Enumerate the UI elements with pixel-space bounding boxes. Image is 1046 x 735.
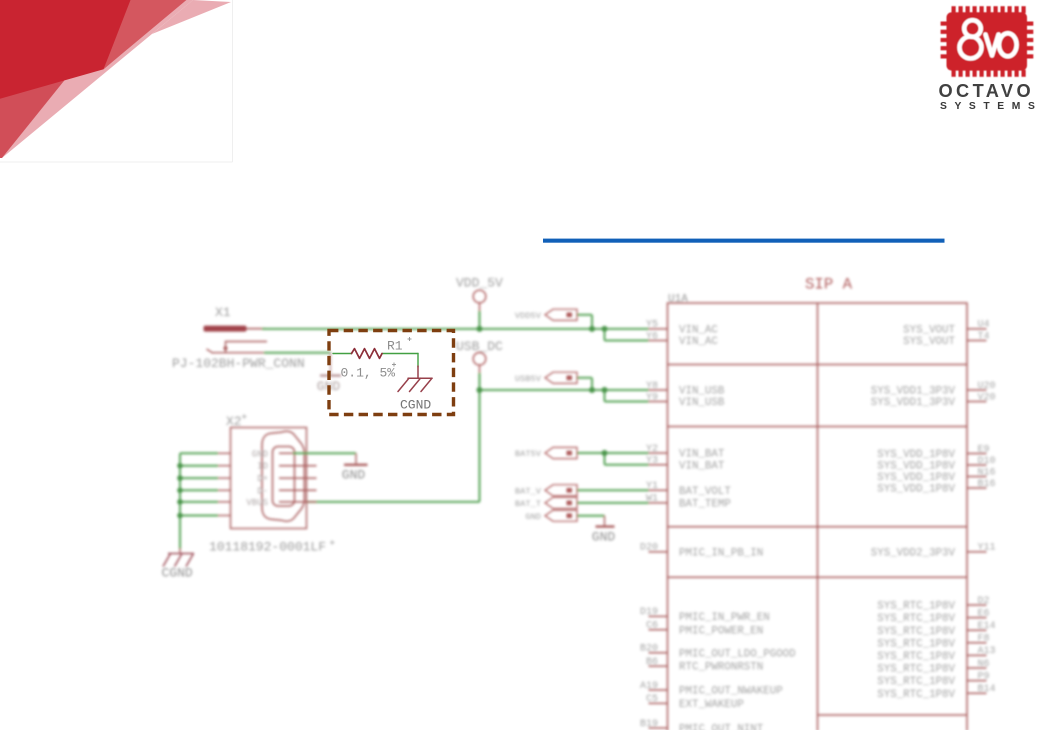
svg-text:10118192-0001LF: 10118192-0001LF (209, 539, 326, 554)
svg-text:B6: B6 (646, 657, 658, 668)
svg-text:U4: U4 (978, 320, 990, 331)
svg-text:V20: V20 (978, 392, 996, 403)
svg-text:P9: P9 (978, 671, 990, 682)
svg-text:VIN_BAT: VIN_BAT (679, 460, 725, 472)
svg-text:B19: B19 (640, 719, 658, 730)
svg-text:SYS_RTC_1P8V: SYS_RTC_1P8V (877, 676, 955, 688)
svg-text:D20: D20 (640, 543, 658, 554)
svg-text:GND: GND (252, 449, 268, 459)
svg-text:SYS_RTC_1P8V: SYS_RTC_1P8V (877, 613, 955, 625)
svg-text:PMIC_OUT_NWAKEUP: PMIC_OUT_NWAKEUP (679, 686, 783, 698)
svg-text:OCTAVO: OCTAVO (939, 81, 1035, 101)
svg-text:Y8: Y8 (646, 381, 658, 392)
svg-text:D2: D2 (978, 596, 990, 607)
svg-text:A13: A13 (978, 646, 996, 657)
svg-text:D19: D19 (640, 607, 658, 618)
svg-text:SIP A: SIP A (805, 276, 853, 294)
svg-text:VIN_AC: VIN_AC (679, 336, 718, 348)
svg-text:PMIC_IN_PB_IN: PMIC_IN_PB_IN (679, 548, 763, 560)
svg-text:BAT_TEMP: BAT_TEMP (679, 499, 731, 511)
svg-text:0.1, 5%: 0.1, 5% (341, 366, 396, 381)
svg-text:B14: B14 (978, 684, 996, 695)
svg-text:B16: B16 (978, 479, 996, 490)
svg-text:SYS_RTC_1P8V: SYS_RTC_1P8V (877, 626, 955, 638)
svg-text:GND: GND (525, 512, 541, 522)
svg-text:BAT_VOLT: BAT_VOLT (679, 486, 731, 498)
svg-text:VDD_5V: VDD_5V (456, 275, 503, 290)
svg-text:R1: R1 (387, 339, 403, 354)
svg-text:C6: C6 (646, 621, 658, 632)
svg-text:SYS_RTC_1P8V: SYS_RTC_1P8V (877, 601, 955, 613)
svg-text:Y11: Y11 (978, 543, 996, 554)
svg-text:N16: N16 (978, 467, 996, 478)
svg-text:BAT_V: BAT_V (515, 487, 542, 497)
svg-text:BAT5V: BAT5V (515, 449, 542, 459)
svg-text:VIN_USB: VIN_USB (679, 397, 725, 409)
svg-text:SYS_VDD2_3P3V: SYS_VDD2_3P3V (871, 548, 956, 560)
svg-text:D10: D10 (978, 456, 996, 467)
svg-text:B20: B20 (640, 644, 658, 655)
svg-text:VIN_BAT: VIN_BAT (679, 449, 725, 461)
svg-text:PMIC_OUT_NINT: PMIC_OUT_NINT (679, 724, 764, 730)
svg-text:A19: A19 (640, 681, 658, 692)
svg-text:Y2: Y2 (646, 444, 658, 455)
svg-text:USB_DC: USB_DC (456, 339, 503, 354)
svg-text:RTC_PWRONRSTN: RTC_PWRONRSTN (679, 662, 763, 674)
svg-text:SYS_RTC_1P8V: SYS_RTC_1P8V (877, 651, 955, 663)
svg-text:D-: D- (257, 486, 268, 496)
svg-text:SYS_VDD_1P8V: SYS_VDD_1P8V (877, 461, 955, 473)
svg-text:PMIC_OUT_LDO_PGOOD: PMIC_OUT_LDO_PGOOD (679, 648, 796, 660)
svg-text:SYS_RTC_1P8V: SYS_RTC_1P8V (877, 689, 955, 701)
svg-text:SYS_VDD1_3P3V: SYS_VDD1_3P3V (871, 397, 956, 409)
svg-text:SYSTEMS: SYSTEMS (940, 101, 1042, 112)
svg-text:VIN_USB: VIN_USB (679, 386, 725, 398)
svg-text:CGND: CGND (162, 565, 193, 580)
svg-text:U20: U20 (978, 381, 996, 392)
svg-text:GND: GND (342, 468, 366, 483)
svg-text:PJ-102BH-PWR_CONN: PJ-102BH-PWR_CONN (172, 356, 305, 371)
svg-text:GND: GND (592, 530, 616, 545)
svg-text:Y1: Y1 (646, 481, 658, 492)
svg-text:X2: X2 (226, 414, 242, 429)
svg-text:EXT_WAKEUP: EXT_WAKEUP (679, 699, 744, 711)
svg-text:VDD5V: VDD5V (515, 311, 542, 321)
svg-text:ID: ID (257, 462, 268, 472)
svg-text:Y3: Y3 (646, 456, 658, 467)
svg-text:SYS_RTC_1P8V: SYS_RTC_1P8V (877, 638, 955, 650)
svg-text:C5: C5 (646, 694, 658, 705)
svg-text:Y9: Y9 (646, 392, 658, 403)
svg-text:VBUS: VBUS (246, 498, 268, 508)
svg-text:SYS_VDD1_3P3V: SYS_VDD1_3P3V (871, 386, 956, 398)
svg-text:E9: E9 (978, 444, 990, 455)
svg-text:SYS_VOUT: SYS_VOUT (903, 336, 955, 348)
svg-text:SYS_VDD_1P8V: SYS_VDD_1P8V (877, 449, 955, 461)
svg-text:Y6: Y6 (646, 331, 658, 342)
svg-text:Y5: Y5 (646, 320, 658, 331)
svg-text:T4: T4 (978, 331, 990, 342)
svg-text:PMIC_POWER_EN: PMIC_POWER_EN (679, 625, 763, 637)
svg-text:D+: D+ (257, 474, 268, 484)
svg-text:SYS_VDD_1P8V: SYS_VDD_1P8V (877, 472, 955, 484)
svg-text:W1: W1 (646, 494, 658, 505)
svg-text:F8: F8 (978, 634, 990, 645)
svg-text:VIN_AC: VIN_AC (679, 325, 718, 337)
svg-text:SYS_RTC_1P8V: SYS_RTC_1P8V (877, 664, 955, 676)
svg-text:CGND: CGND (400, 397, 431, 412)
svg-text:BAT_T: BAT_T (515, 499, 541, 509)
svg-text:SYS_VDD_1P8V: SYS_VDD_1P8V (877, 484, 955, 496)
svg-text:E14: E14 (978, 621, 996, 632)
svg-text:X1: X1 (215, 305, 231, 320)
svg-text:SYS_VOUT: SYS_VOUT (903, 325, 955, 337)
svg-text:E6: E6 (978, 608, 990, 619)
svg-text:N6: N6 (978, 659, 990, 670)
svg-text:USB5V: USB5V (515, 374, 542, 384)
svg-text:PMIC_IN_PWR_EN: PMIC_IN_PWR_EN (679, 612, 770, 624)
